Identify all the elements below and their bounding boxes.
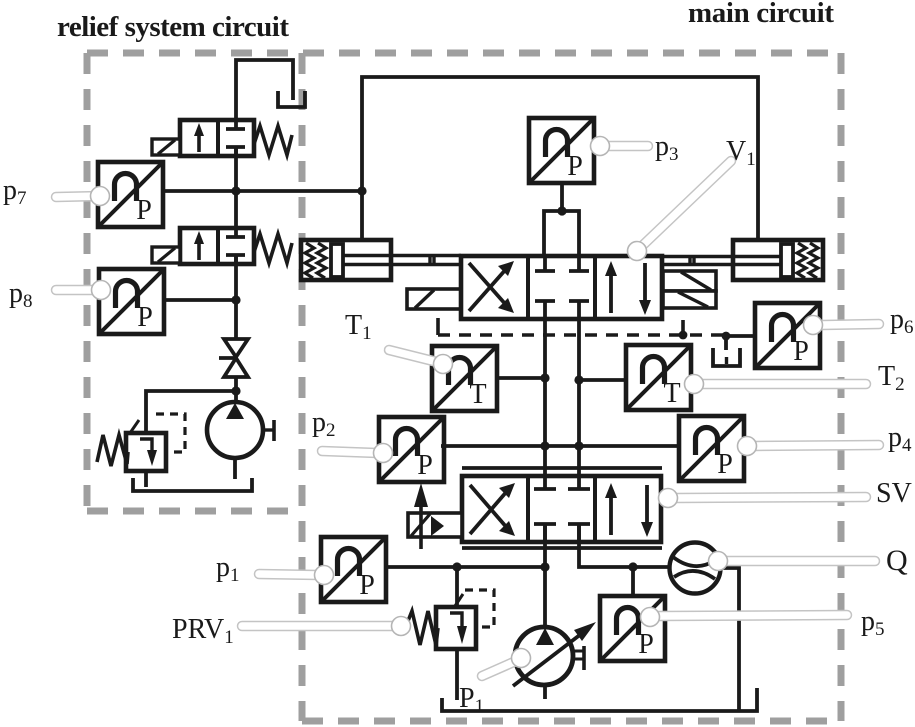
callout lead Q: [727, 556, 875, 567]
wire: Q outlet to tank: [720, 568, 739, 711]
directional valve V1 body: [461, 256, 662, 319]
pump (relief circuit): [207, 402, 263, 458]
throttle valve (relief circuit): [219, 339, 248, 377]
dashed border: relief box left edge: [84, 53, 91, 511]
wire: T2 to line B: [579, 378, 626, 382]
callout circle T2: [685, 375, 704, 394]
pressure relief valve PRV1 body: [436, 607, 476, 649]
V1 left actuator springs: [305, 243, 326, 278]
callout circle SV: [659, 489, 678, 508]
callout lead SV: [676, 497, 866, 498]
pump shaft (relief circuit): [263, 428, 274, 431]
tank line (main circuit): [442, 688, 757, 711]
P1 variable displacement arrow: [513, 631, 585, 686]
SV subplate lines: [462, 466, 662, 470]
callout circle p8: [92, 281, 111, 300]
wire: pilot loop (top rectangle): [362, 77, 758, 240]
V1 right actuator springs: [797, 243, 818, 278]
callout lead p3: [606, 141, 648, 152]
callout circle p5: [641, 608, 660, 627]
callout circle P1: [512, 649, 531, 668]
V1 right actuator piston: [781, 244, 793, 277]
pressure sensor p4: [679, 416, 744, 481]
svg-text:Q: Q: [886, 544, 908, 577]
SV centre box blocked ports: [534, 476, 590, 542]
wire: T1 to line A: [497, 376, 545, 380]
callout circle p2: [374, 444, 393, 463]
wire: work line B (x=579) V1 to SV: [577, 319, 581, 489]
junction dot at pilot loop left vertical: [357, 186, 366, 195]
junction dot p3 manifold: [557, 206, 566, 215]
dashed border: main box bottom edge: [302, 718, 841, 725]
svg-text:relief system circuit: relief system circuit: [57, 11, 289, 43]
junction dot pump outlet: [231, 386, 240, 395]
V1 right drain tick: [681, 320, 685, 335]
callout lead p4: [754, 445, 879, 446]
manifold block above V1: [544, 211, 579, 256]
wire: drain dot to p6: [726, 334, 755, 338]
V1 centre box blocked ports: [535, 256, 589, 319]
relief valve internal arrow: [140, 439, 152, 452]
callout lead PRV1: [242, 621, 394, 632]
dashed border: shared top edge of relief and main boxes: [87, 50, 838, 57]
dashed border: relief box bottom edge: [87, 508, 302, 515]
pressure sensor p6: [755, 303, 820, 368]
variable pump P1: [515, 627, 573, 685]
callout lead p7: [56, 196, 100, 197]
wire: valve U1 top port to tank: [236, 60, 293, 122]
callout lead V1: [642, 161, 731, 246]
junction dot p8 line: [231, 295, 240, 304]
callout circle V1: [628, 242, 647, 261]
V1 pilot drain tick (left end): [436, 318, 440, 335]
solenoid valve U2 body: [180, 228, 254, 264]
callout lead T1: [389, 350, 437, 362]
dashed border: main box right edge: [838, 53, 845, 721]
SV right box parallel arrows: [611, 485, 647, 535]
relief valve pilot dashed line: [156, 414, 185, 452]
callout lead p1: [259, 574, 318, 575]
pressure sensor p8: [99, 269, 164, 334]
tank bracket (relief circuit): [133, 478, 252, 491]
P1 shaft: [573, 646, 584, 670]
wire: junction to relief valve RV inlet: [146, 391, 236, 433]
callout lead p8: [56, 285, 101, 296]
pilot drain dashed line: [438, 333, 726, 337]
relief valve pilot tick: [130, 420, 139, 433]
SV proportional solenoid: [408, 513, 462, 537]
V1 right solenoid (two stage): [663, 271, 716, 291]
SV left box crossed arrows: [470, 485, 508, 534]
flow meter Q: [670, 543, 721, 594]
temperature sensor T1: [432, 346, 497, 411]
V1 left actuator rod: [343, 256, 461, 265]
pressure sensor p7: [98, 162, 163, 227]
tank symbol top (relief circuit): [278, 91, 305, 107]
pressure sensor p5: [600, 596, 665, 661]
wire: p1 to pump line: [385, 565, 545, 569]
relief valve spring: [97, 435, 128, 466]
dashed border: middle vertical (relief right / main left): [299, 53, 306, 721]
valve U2 flow arrow (left box): [197, 239, 201, 260]
wire: return line (x=579) SV down and right to Q: [579, 524, 670, 567]
wire: relief vertical between valves U1-U2: [234, 147, 238, 237]
callout circle p3: [591, 137, 610, 156]
valve U1 return spring: [254, 126, 292, 155]
wire: P1 suction stub: [543, 685, 547, 699]
PRV1 internal arrow: [450, 613, 462, 628]
wire: p3 stub down to manifold: [560, 182, 564, 211]
PRV1 spring: [406, 611, 438, 645]
svg-text:SV: SV: [876, 478, 912, 509]
relief valve body (relief circuit): [126, 433, 166, 471]
servo valve SV body: [462, 476, 661, 542]
SV solenoid control arrow: [419, 505, 423, 549]
callout circle p1: [315, 566, 334, 585]
PRV1 pilot dashed line: [465, 590, 494, 627]
callout circle p4: [738, 437, 757, 456]
V1 left pilot actuator (spring + piston + cylinder): [301, 240, 391, 280]
PRV1 pilot tick: [455, 594, 463, 606]
callout lead p5: [658, 615, 847, 616]
V1 right box parallel arrows: [611, 263, 645, 313]
wire: pump suction stub: [233, 458, 237, 479]
svg-text:main circuit: main circuit: [688, 0, 834, 29]
wire: throttle to pump junction: [234, 377, 238, 403]
wire: work line A (x=545) V1 to SV: [543, 319, 547, 489]
valve U2 solenoid: [152, 247, 180, 263]
V1 right actuator rod: [662, 257, 781, 265]
valve U1 blocked ports (right box): [226, 120, 245, 156]
V1 right pilot actuator (cylinder + piston + spring): [733, 240, 823, 280]
V1 left solenoid: [407, 289, 461, 309]
junction dot at relief line x236: [231, 186, 240, 195]
wire: PRV1 drain to tank: [455, 649, 459, 700]
wire: relief vertical U2 to throttle: [234, 255, 238, 340]
wire: p5 stub: [631, 567, 635, 596]
pressure sensor p2: [379, 417, 444, 482]
callout lead T2: [702, 379, 866, 390]
wire: p2 - p4 line: [441, 444, 679, 448]
callout circle p7: [91, 187, 110, 206]
wire: drain to small tank: [724, 336, 728, 350]
solenoid valve U1 body: [180, 120, 254, 156]
callout lead p6: [822, 324, 879, 325]
callout circle p6: [804, 316, 823, 335]
valve U1 solenoid: [152, 139, 180, 155]
callout circle T1: [434, 355, 453, 374]
callout circle PRV1: [392, 617, 411, 636]
wire: p8 to relief line: [164, 298, 236, 302]
valve U2 blocked ports (right box): [226, 228, 245, 264]
callout lead p2: [322, 451, 377, 453]
valve U1 flow arrow (left box): [197, 131, 201, 152]
valve U2 return spring: [254, 234, 292, 263]
wire: pump pressure line (x=545) SV to pump P1: [543, 524, 547, 628]
V1 left actuator piston: [331, 244, 343, 277]
wire: p7 to relief main line: [163, 189, 362, 193]
pressure sensor p1: [321, 537, 386, 602]
pressure sensor p3: [529, 118, 594, 183]
small tank symbol (pilot drain): [713, 348, 740, 366]
callout lead P1: [482, 661, 516, 676]
wire: PRV1 inlet: [455, 567, 459, 607]
temperature sensor T2: [626, 345, 691, 410]
callout circle Q: [709, 552, 728, 571]
V1 left box crossed arrows: [469, 263, 507, 311]
wire: relief valve drain: [144, 471, 148, 487]
drain junction dot near p6: [722, 332, 731, 341]
